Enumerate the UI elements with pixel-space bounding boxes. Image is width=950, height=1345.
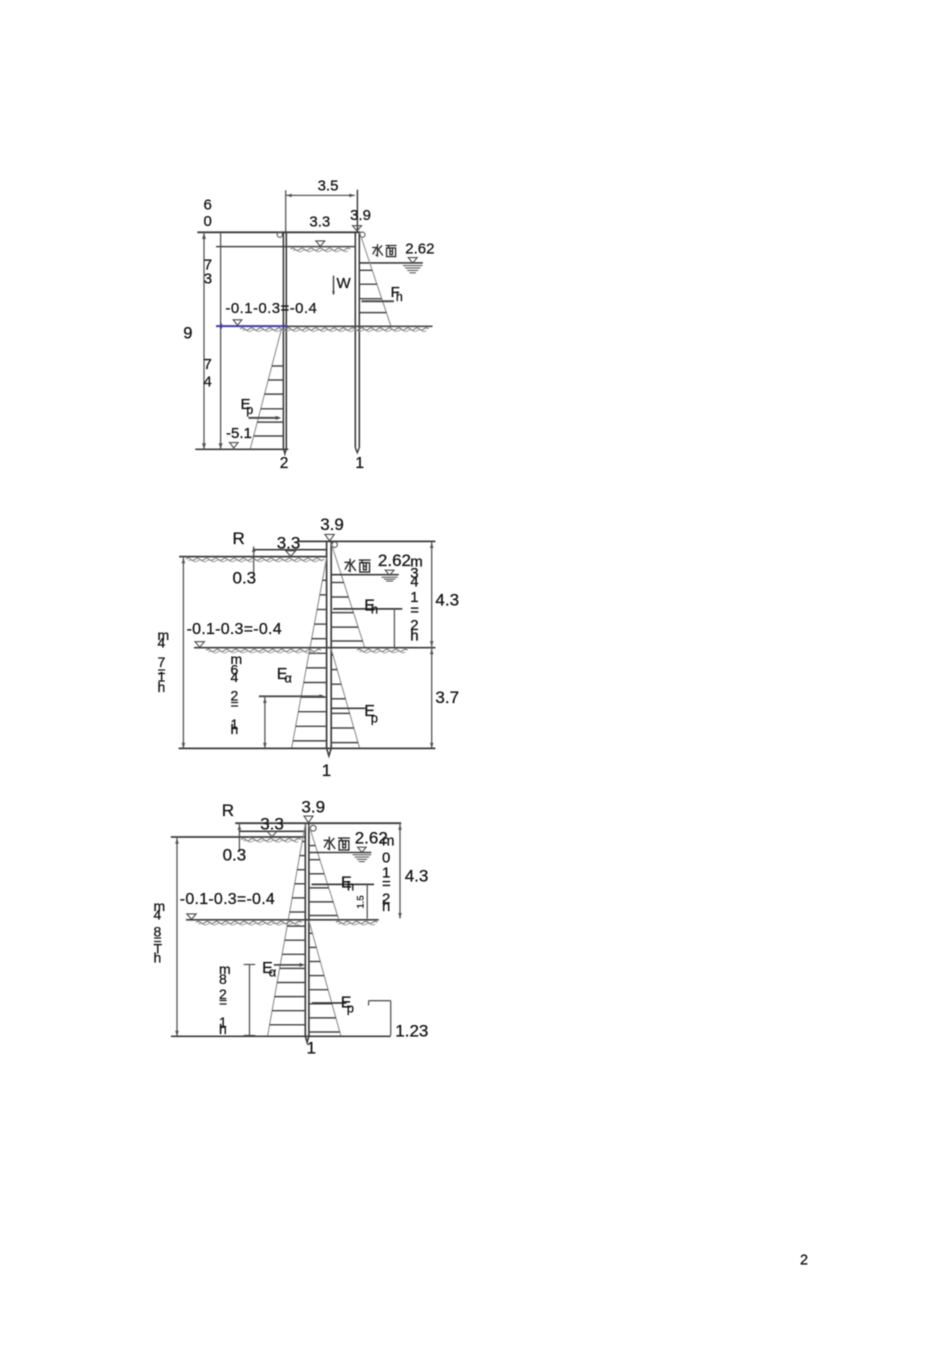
hatch left of pile [293,580,327,741]
svg-text:1: 1 [322,761,331,780]
svg-text:h: h [396,290,403,304]
outside water surface line [359,262,423,264]
hatch left of pile [270,842,306,1025]
label Ep [241,396,254,417]
svg-text:1.23: 1.23 [395,1022,428,1041]
right pressure slope below dredge [309,921,341,1037]
svg-text:0: 0 [204,213,212,230]
label Ea [262,960,277,980]
svg-text:m: m [382,832,395,849]
second dimension line [219,232,223,449]
top line [298,540,436,542]
label 73 stacked [204,256,212,287]
svg-text:8: 8 [219,971,227,987]
svg-text:h: h [231,721,239,737]
ground marker triangle [267,831,277,837]
svg-text:p: p [347,1001,354,1016]
extension line above pile 1 [356,190,358,232]
hatch right of pile below dredge [309,933,340,1032]
figure 2: anchored sheet pile wall [158,515,460,780]
svg-text:W: W [337,275,352,292]
ring at pile top [310,825,316,831]
svg-text:h: h [219,1021,227,1037]
svg-text:3.3: 3.3 [309,214,330,231]
svg-text:-0.1-0.3=-0.4: -0.1-0.3=-0.4 [225,300,317,317]
label 60 stacked [204,196,212,230]
svg-text:3.7: 3.7 [435,688,459,707]
svg-text:2.62: 2.62 [378,551,411,570]
left dimension line (overall) [202,232,206,449]
svg-text:9: 9 [183,324,192,342]
soil texture under ground line [240,328,429,330]
1.23 depth bracket [369,1001,391,1036]
right pressure slope above dredge [331,543,365,647]
ring at top of pile 1 [360,232,365,237]
ring at pile top [332,542,337,547]
svg-text:-5.1: -5.1 [226,425,252,442]
pressure hatch lines left of pile 2 [254,366,284,436]
force Eh line [333,608,402,610]
water surface symbol [353,847,372,861]
right dimension line 4.3 [398,823,402,918]
right pressure slope above dredge [309,825,339,919]
svg-text:4.3: 4.3 [405,867,429,886]
svg-text:3.9: 3.9 [301,797,325,816]
svg-text:=: = [231,696,239,712]
label Ea [277,666,293,685]
right stacked label m01=2h [382,832,395,915]
label 74 stacked [204,356,212,391]
ring at top of pile 2 [277,232,282,237]
svg-text:4: 4 [231,669,239,685]
right dimension line [430,541,434,748]
svg-text:3.9: 3.9 [320,515,344,534]
svg-text:1.5: 1.5 [356,895,367,908]
svg-text:4: 4 [410,573,418,590]
dredge level marker triangle [233,320,242,325]
ground line behind wall [179,556,327,558]
force Ep arrow [248,416,281,420]
label Eh [364,597,378,616]
svg-text:h: h [371,602,378,617]
bottom level marker triangle [230,443,239,448]
dimension 3.5 line [286,194,355,198]
top line [235,822,401,824]
anchor line (3.3 dimension) [239,830,305,832]
figure 3: cantilever sheet pile wall [154,797,429,1057]
weight W arrow [332,276,335,295]
passive pressure slope left of pile 2 [250,329,281,450]
top marker triangle [325,534,334,541]
Ea depth bracket [244,965,256,1036]
ground line behind wall [171,836,305,838]
left dimension line [175,837,179,1036]
dredge marker triangle [187,914,196,920]
sheet pile (double line with tip) [305,823,309,1042]
svg-text:4.3: 4.3 [435,591,459,610]
svg-text:4: 4 [158,634,166,650]
top elevation marker triangle at pile 1 [353,226,362,231]
cap line (top of wall system) [197,231,360,233]
bottom boundary line [171,1035,391,1037]
svg-text:2.62: 2.62 [405,241,434,258]
label shuimian (water surface) [373,245,396,257]
Ea depth bracket [263,696,267,748]
label Ep [341,995,354,1016]
dredge marker triangle [195,642,204,648]
figure 1: cofferdam section with piles 1 and 2 [183,177,434,472]
left pressure slope [292,558,327,749]
svg-text:0.3: 0.3 [233,569,257,588]
svg-text:4: 4 [204,373,212,390]
bottom boundary line [179,747,436,749]
dredge line [186,919,379,921]
svg-text:1: 1 [355,455,364,472]
water surface symbol [382,570,398,581]
svg-text:h: h [410,627,418,644]
bottom boundary line [195,448,288,450]
dredge line [194,647,435,649]
svg-text:2: 2 [280,455,289,472]
dredge/ground line [216,325,433,327]
pile 2 (double line with tip) [283,232,286,453]
center stacked label m82=1h [219,961,231,1037]
soil texture right [357,649,408,651]
force Fh arrow line [362,300,394,302]
label Fh [391,284,403,304]
svg-text:R: R [233,529,245,548]
hatch right of pile below dredge [331,655,358,743]
svg-text:h: h [154,950,162,966]
force Eh line [312,883,374,885]
active pressure slope right of pile 1 [360,233,392,328]
hatch right of pile above dredge [309,846,338,916]
extension line above pile 2 [285,190,287,232]
water table marker triangle [316,241,325,246]
force Ea arrow [259,694,325,698]
label shuimian [345,559,370,572]
soil texture [241,839,301,841]
pressure hatch lines right of pile 1 [359,270,386,312]
left outer stacked label m47=1h [158,627,170,695]
sheet pile (double line with tip) [327,541,332,756]
svg-text:1: 1 [307,1039,316,1058]
svg-text:h: h [158,679,166,695]
water surface symbol [403,258,423,273]
inner water/mud line [216,246,356,248]
svg-text:h: h [347,878,354,893]
svg-text:2: 2 [800,1253,808,1269]
svg-text:α: α [284,670,292,685]
ground marker triangle [286,551,296,557]
center stacked label m642=1h [231,651,243,737]
svg-text:p: p [246,403,253,417]
soil texture under inner line [291,248,351,250]
svg-text:0.3: 0.3 [223,846,247,865]
water surface line [331,574,399,576]
R leader tick [252,547,256,574]
svg-text:3: 3 [204,271,212,288]
svg-text:6: 6 [204,196,212,213]
svg-text:3.9: 3.9 [350,207,371,224]
force Ep line [331,707,365,709]
soil texture right [336,921,377,923]
label shuimian [324,837,349,850]
svg-text:h: h [382,898,390,915]
svg-text:=: = [219,994,227,1010]
svg-text:-0.1-0.3=-0.4: -0.1-0.3=-0.4 [180,891,275,908]
water surface line [309,852,371,854]
soil texture [186,558,324,560]
svg-text:7: 7 [204,356,212,373]
svg-text:α: α [269,965,277,980]
left dimension line [182,557,186,749]
left pressure slope [268,824,306,1036]
svg-text:3.5: 3.5 [318,177,339,194]
svg-text:4: 4 [154,907,162,923]
hatch right of pile above dredge [331,583,362,642]
soil texture left [196,921,302,923]
svg-text:p: p [371,710,378,725]
right pressure slope below dredge [331,649,360,749]
top marker triangle [304,816,313,823]
force Ea arrow [274,963,305,967]
left outer stacked label m48=Th [154,898,166,966]
anchor line (3.3 dimension) [254,549,327,551]
svg-text:-0.1-0.3=-0.4: -0.1-0.3=-0.4 [187,621,282,638]
force Ep line [312,1002,347,1004]
label Ep [364,703,378,725]
right stacked label m341=2h [410,553,423,644]
pile 1 (double line with tip) [355,232,359,453]
Eh depth tick line [393,609,395,648]
soil texture left [206,649,321,651]
svg-text:R: R [222,801,234,820]
blue water level line [216,323,285,329]
R leader tick [238,823,242,852]
label Eh [341,874,354,893]
Eh depth tick line [366,884,368,918]
